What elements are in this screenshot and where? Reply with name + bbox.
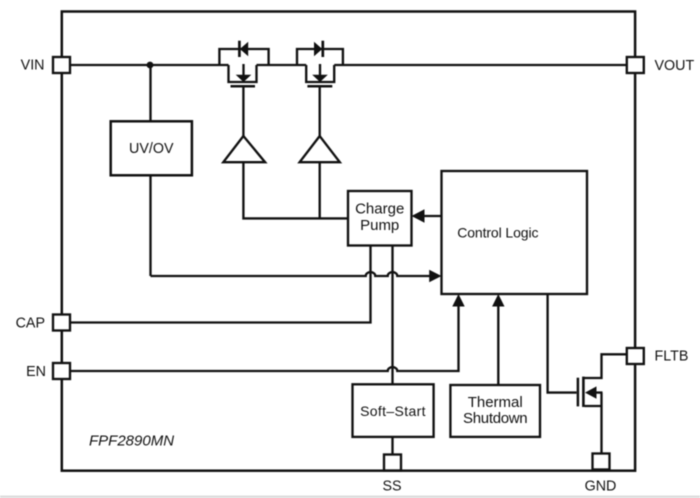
- svg-text:EN: EN: [26, 364, 46, 380]
- svg-text:SS: SS: [382, 479, 401, 495]
- svg-text:UV/OV: UV/OV: [129, 141, 174, 157]
- svg-text:Thermal: Thermal: [468, 394, 523, 411]
- svg-text:Shutdown: Shutdown: [463, 410, 527, 427]
- svg-text:FPF2890MN: FPF2890MN: [89, 433, 174, 450]
- svg-text:GND: GND: [585, 479, 617, 495]
- svg-text:Control Logic: Control Logic: [457, 225, 538, 241]
- svg-text:CAP: CAP: [16, 316, 45, 332]
- svg-text:Soft–Start: Soft–Start: [360, 403, 426, 419]
- svg-text:VOUT: VOUT: [655, 58, 695, 74]
- svg-text:Pump: Pump: [360, 217, 399, 234]
- svg-text:FLTB: FLTB: [655, 349, 689, 365]
- svg-text:VIN: VIN: [21, 58, 45, 74]
- svg-text:Charge: Charge: [355, 201, 404, 218]
